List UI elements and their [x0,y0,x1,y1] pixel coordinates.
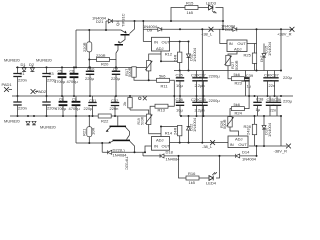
svg-text:1N4004: 1N4004 [192,117,197,132]
wire drop to rail F [101,143,103,152]
svg-text:R25: R25 [244,53,252,58]
wire mid vertical long [201,29,203,142]
capacitor C9 [72,100,81,108]
svg-text:2k: 2k [122,102,127,106]
svg-text:500R: 500R [127,67,132,77]
svg-text:IN: IN [229,41,233,46]
svg-text:R15: R15 [186,1,194,6]
svg-text:C32: C32 [111,98,119,103]
resistor R22 [98,114,111,118]
wire rail B top [143,28,293,30]
wire pad2 stub [35,91,38,93]
capacitor C5 [58,72,67,80]
svg-text:IN: IN [154,144,158,149]
capacitor C27 [199,78,207,81]
pad PAD1 [4,87,9,92]
wire box1 out [170,41,189,43]
wire R24 right [243,96,249,109]
wire box2 in [220,29,227,43]
pad -38_L [210,140,215,145]
svg-text:OUT: OUT [162,40,171,45]
diode D1 [22,68,26,72]
resistor R18 [128,98,132,108]
svg-text:+38V_R: +38V_R [277,32,292,37]
wire R15 to LED3 [198,7,208,9]
regulator U2 box [227,40,247,52]
wire rail G2 bottom out [170,142,229,144]
svg-text:C40C37: C40C37 [264,73,279,78]
diode D15 vertical [262,54,266,58]
svg-text:220µ: 220µ [283,99,293,104]
svg-text:MUR820: MUR820 [4,119,21,124]
capacitor C29 [192,102,200,105]
diode D12 vertical [187,126,191,130]
wire R19 top lead [88,30,90,42]
resistor R17 [132,67,136,77]
wire C32 drop [114,106,116,116]
svg-text:OUT: OUT [237,41,246,46]
svg-text:D9: D9 [147,27,153,32]
capacitor C37 [270,78,278,81]
svg-text:10µ: 10µ [176,108,183,113]
wire adj to trimmer2 [149,125,161,134]
diode D16 vertical [262,126,266,130]
wire adj to trimmer1 [149,54,161,61]
svg-text:C9: C9 [72,98,76,102]
svg-text:220n: 220n [110,106,119,111]
resistor R25 [252,53,256,63]
capacitor C35 [266,102,274,105]
capacitor C3 [42,74,50,77]
wire riser D14 [256,146,258,156]
svg-text:ADJ: ADJ [234,46,242,51]
svg-text:C3: C3 [49,71,55,76]
resistor R23 [231,77,244,81]
wire adj box1 [161,51,180,61]
wire adj box2 [228,52,237,56]
svg-text:10µ: 10µ [176,83,183,88]
wire trimmer1 bottom tap [148,71,150,80]
svg-text:220n: 220n [18,77,27,82]
svg-text:TIP32C: TIP32C [125,157,130,171]
wire rectifier rail E [10,115,99,117]
diode D13 [233,27,237,31]
wire trimmer3 to R23 [228,66,233,79]
wire riser right top [256,29,258,70]
wire box2 out [247,43,257,45]
wire R20 right [110,60,117,72]
regulator U4 box [228,136,248,148]
diode D22 [108,150,112,154]
diode D15 leads [263,44,265,71]
svg-text:5k6: 5k6 [234,72,241,77]
svg-text:500R: 500R [234,60,239,70]
capacitor C39 [241,78,249,81]
wire R21 top lead [88,116,90,127]
wire vertical x142 [142,21,144,42]
svg-text:OUT: OUT [238,142,247,147]
svg-text:MUR820: MUR820 [4,58,21,63]
wire LED3 right drop [216,8,224,30]
wire R13 right [167,96,174,106]
svg-text:1k5: 1k5 [189,180,196,185]
svg-text:R28: R28 [244,124,252,129]
wire D21 drop [105,21,107,30]
svg-text:220µ: 220µ [111,76,121,81]
svg-text:1µ: 1µ [247,84,252,89]
svg-text:C35C36: C35C36 [267,97,282,102]
capacitor C25 [176,78,184,81]
resistor R12 [178,52,182,62]
wire rail F right [143,155,257,157]
svg-text:R22: R22 [101,119,109,124]
regulator U1 box [152,37,170,51]
capacitor C26 [176,102,184,105]
svg-text:MUR820: MUR820 [36,58,53,63]
diode D4 [32,121,36,125]
svg-text:1k5: 1k5 [187,10,194,15]
trimmer P1 [145,60,152,70]
capacitor C1 [13,74,21,77]
svg-text:D18: D18 [166,149,174,154]
wire trimmer4 to R24 [230,109,233,117]
wire LED4 loop right [216,156,220,178]
diode D3 [26,121,30,125]
wire rectifier rail C [16,66,146,68]
svg-text:ADJ: ADJ [156,137,164,142]
wire rail H2 bottom [181,115,281,117]
pad PAD2 [31,89,36,94]
regulator U3 box [152,137,170,151]
wire feed left top [75,30,77,67]
wire box3 in [145,146,152,152]
svg-text:1N4004: 1N4004 [192,47,197,62]
svg-text:C8: C8 [59,98,63,102]
svg-text:R13: R13 [158,108,166,113]
trimmer P3 [225,55,232,65]
wire pad1 stub [9,89,13,91]
diode D12 leads [188,116,190,143]
svg-text:2.2µh: 2.2µh [195,83,205,88]
svg-text:C29C28: C29C28 [191,97,206,102]
wire riser far right bottom [280,116,282,146]
resistor R19 rounded [87,42,92,52]
svg-text:IN: IN [154,40,158,45]
svg-text:D21: D21 [96,19,104,24]
svg-text:C38: C38 [256,97,264,102]
capacitor C10 [86,71,94,74]
diode D21 [108,19,112,23]
capacitor C38 [253,102,261,105]
svg-text:22n: 22n [270,108,277,113]
wire R19 bottom lead [88,52,90,67]
capacitor C8 [59,100,68,108]
wire R13 drop [150,106,156,116]
svg-text:5k6: 5k6 [159,73,166,78]
svg-text:D1: D1 [21,62,27,67]
svg-text:C30C27: C30C27 [191,73,206,78]
svg-text:LED4: LED4 [206,181,217,186]
svg-text:-38_L: -38_L [202,144,213,149]
svg-text:1µ: 1µ [256,107,261,112]
svg-text:2200µ: 2200µ [209,74,221,79]
svg-text:2.2µh: 2.2µh [195,108,205,113]
svg-text:C5: C5 [58,69,62,73]
svg-text:4700µ: 4700µ [54,79,66,84]
capacitor C32 [111,103,119,106]
resistor R14 [178,125,182,135]
svg-text:D14: D14 [242,149,250,154]
svg-text:C10: C10 [87,67,95,72]
transistor Q5 [110,126,127,128]
svg-text:220µ: 220µ [85,76,95,81]
svg-text:R16: R16 [188,171,196,176]
svg-text:4700µ: 4700µ [55,106,67,111]
svg-text:PAD1: PAD1 [2,82,13,87]
wire trimmer2 top [130,110,149,114]
wire R23 right [243,79,249,96]
svg-text:1N4004: 1N4004 [267,122,272,137]
LED4 [209,172,217,180]
svg-text:2200µ: 2200µ [209,98,221,103]
svg-text:220µ: 220µ [283,75,293,80]
wire rail E right part [111,115,150,117]
svg-text:IN: IN [230,142,234,147]
pad +38_L [209,27,214,32]
svg-text:243: 243 [246,128,251,135]
diode D16 leads [263,116,265,146]
svg-text:R24: R24 [235,111,243,116]
wire riser far right top [280,29,282,70]
wire R21 bottom lead [88,137,90,144]
svg-text:TIP31C: TIP31C [121,13,126,27]
diode D18 [160,154,164,158]
svg-text:500R: 500R [141,116,145,125]
wire F jog [142,152,144,156]
wire adj box3 [161,127,180,137]
capacitor C6 [70,72,79,80]
svg-text:+38_L: +38_L [201,32,213,37]
wire rail A2 bottom [76,142,109,144]
svg-text:ADJ: ADJ [235,136,243,141]
capacitor C31 [88,103,96,106]
pad 0_L mark [143,96,147,100]
wire rail F bottom [102,151,145,153]
svg-text:Q4: Q4 [115,20,120,26]
svg-text:1N4004: 1N4004 [267,41,272,56]
wire base Q4 [76,29,121,31]
svg-text:C39: C39 [246,73,254,78]
capacitor C40 [263,78,271,81]
svg-text:R23: R23 [235,81,243,86]
resistor R28 [252,124,256,134]
diode D11 vertical [187,54,191,58]
wire LED4 loop left [179,156,187,178]
svg-text:OUT: OUT [162,144,171,149]
resistor R11 [157,78,170,82]
svg-text:24R: 24R [173,55,178,62]
wire feed left bottom [75,116,77,143]
svg-text:C31: C31 [89,98,97,103]
LED3 [209,5,217,13]
svg-text:220R: 220R [96,53,106,58]
transistor Q6 [113,140,131,142]
capacitor C28 [199,102,207,105]
svg-text:220µ: 220µ [84,106,94,111]
wire LED3 branch [171,8,185,22]
wire rail H top [174,70,281,72]
pad -38V_R [286,144,291,149]
resistor R15 [185,6,198,10]
svg-text:4700µ: 4700µ [69,106,81,111]
svg-text:R11: R11 [161,83,169,88]
trimmer P2 [145,114,152,124]
wire rail A top [106,20,223,22]
resistor R21 rounded [87,127,92,137]
svg-text:C1: C1 [20,71,26,76]
svg-text:C26: C26 [176,97,184,102]
svg-text:R21: R21 [82,128,87,136]
diode D11 leads [188,42,190,71]
svg-text:500R: 500R [222,119,227,129]
pad +38V_R [290,27,295,32]
wire rail G bottom right [249,145,287,147]
capacitor C7 [112,71,120,74]
svg-text:D13: D13 [225,27,233,32]
svg-text:PAD2: PAD2 [36,89,47,94]
capacitor C36 [273,102,281,105]
svg-text:LED3: LED3 [206,1,217,6]
capacitor C30 [192,78,200,81]
svg-text:220n: 220n [18,106,27,111]
resistor R20 [97,58,110,62]
svg-text:D2: D2 [29,62,35,67]
svg-text:ADJ: ADJ [156,46,164,51]
svg-text:C7: C7 [113,67,119,72]
transistor Q4 [120,21,135,43]
wire trimmer1 bottom [134,77,157,80]
svg-text:10R: 10R [91,128,96,135]
svg-text:MUR820: MUR820 [40,125,57,130]
svg-text:1N4084: 1N4084 [166,157,181,162]
svg-text:220R: 220R [82,42,87,52]
svg-text:C6: C6 [70,69,74,73]
svg-text:C25: C25 [176,73,184,78]
wire ground rail D [12,95,293,97]
svg-text:4700µ: 4700µ [67,79,79,84]
svg-text:22n: 22n [269,83,276,88]
resistor R13 [155,104,168,108]
svg-text:5k6: 5k6 [234,102,241,107]
diode D2 [30,68,34,72]
svg-text:R20: R20 [101,62,109,67]
resistor R24 [231,107,244,111]
svg-text:24R: 24R [173,128,178,135]
wire R11 row [169,80,174,96]
svg-text:1N4004: 1N4004 [242,157,257,162]
svg-text:243: 243 [260,56,265,63]
resistor R16 [186,176,199,180]
diode D9 [158,27,162,31]
pad 0 mark circle [139,97,142,100]
diode D14 [236,154,240,158]
wire box1 in [143,41,151,43]
wire adj box4 [230,127,239,136]
wire R20 row [89,59,96,61]
svg-text:-38V_R: -38V_R [274,149,288,154]
capacitor C2 [13,102,21,105]
trimmer P4 [227,117,234,127]
transistor Q3 [115,44,124,46]
wire LED4 mid [199,177,209,179]
junction dots [134,20,136,22]
capacitor C4 [42,102,50,105]
